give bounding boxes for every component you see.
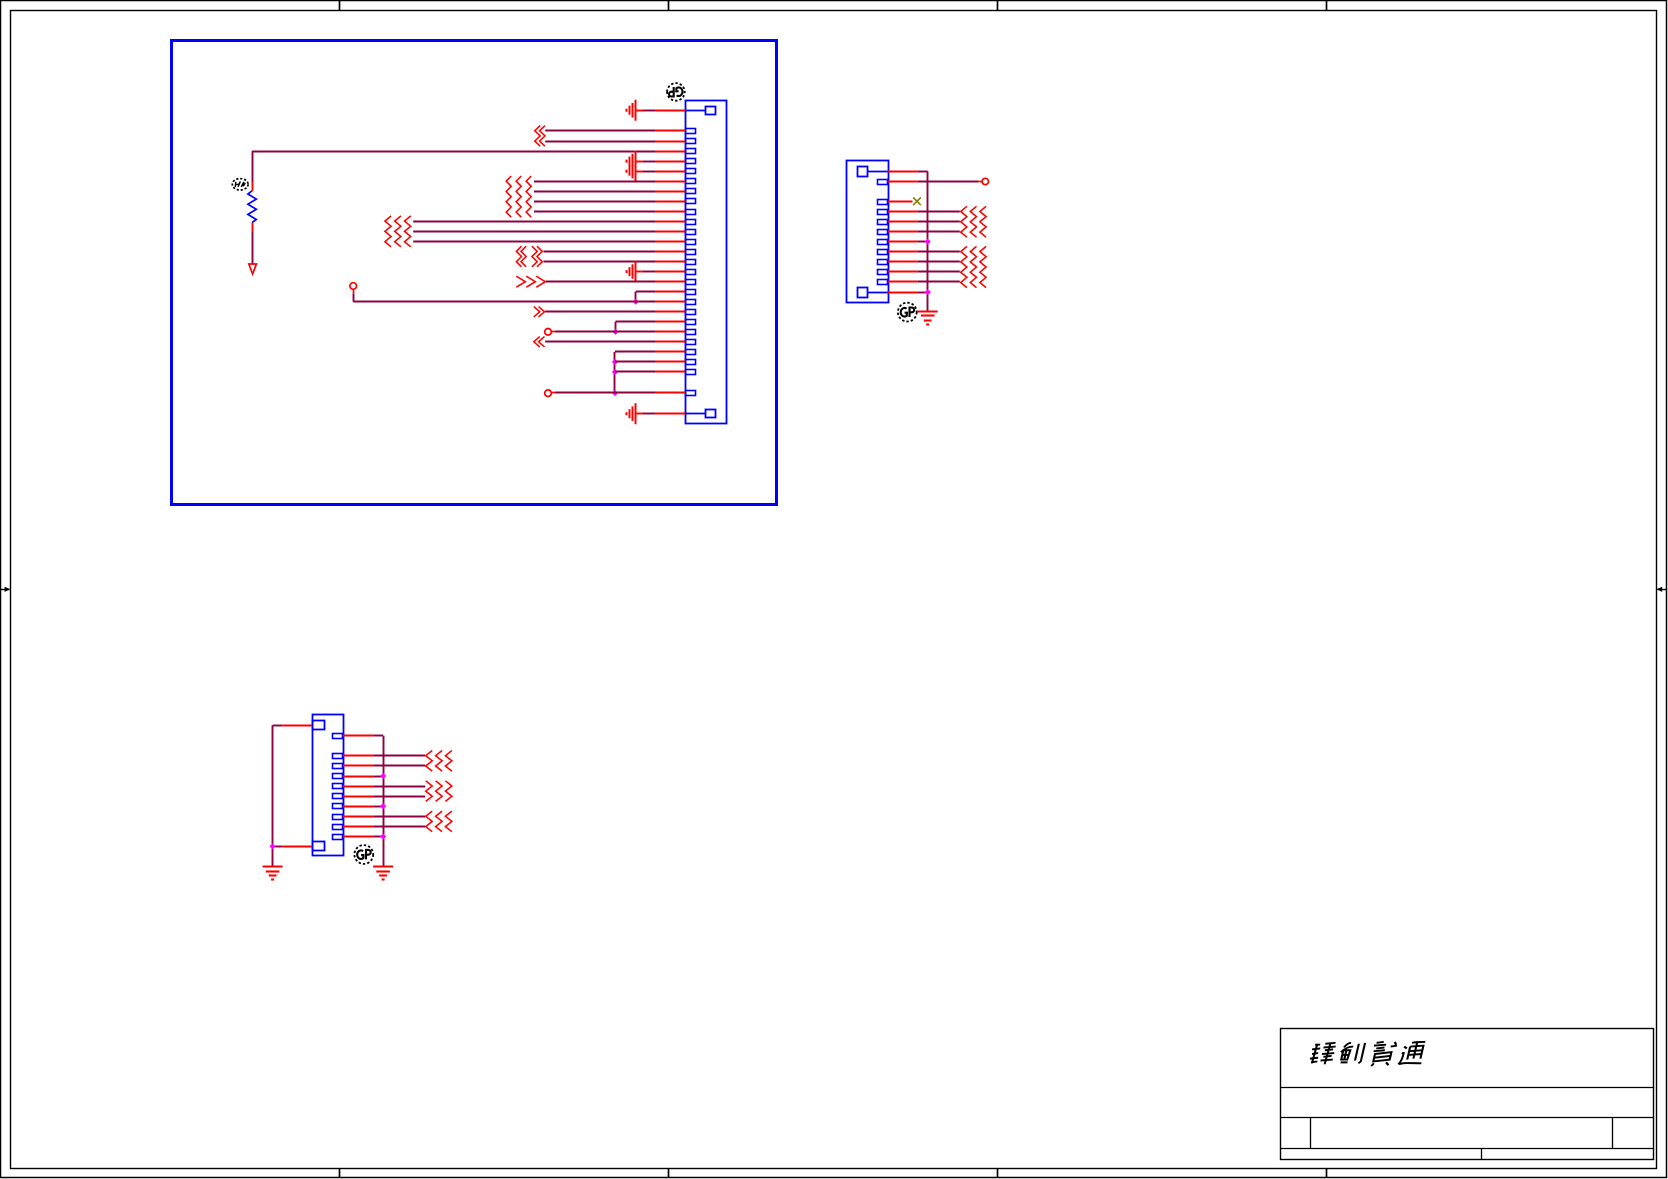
wire row 16: [546, 281, 655, 283]
wire J2 pin2 to TP: [918, 181, 982, 183]
net flag GP (J2): [898, 303, 917, 322]
wire row 17 branch: [636, 292, 656, 302]
node H junction: [270, 843, 276, 849]
ground GND5 (J2): [918, 312, 938, 325]
wires rows 10-12: [413, 222, 655, 242]
wires J3 rows 8-9: [373, 817, 425, 827]
chevrons (row 16): [516, 276, 545, 287]
resistor pair RP5 (row 19): [534, 307, 545, 317]
resistor pair RP6 (row 22): [534, 337, 545, 347]
wires J3 rows 2-3: [373, 756, 425, 766]
resistor pack RP3 (rows 10-12): [385, 216, 411, 247]
wires J3 rows 5-6: [373, 787, 425, 797]
test point TP1: [350, 283, 357, 290]
wire rows 1-2: [545, 131, 655, 142]
wire row 25: [615, 371, 655, 373]
wire row 20 branch: [616, 322, 656, 332]
wire TP2 row 21: [551, 331, 655, 333]
resistor pair RP4 (rows 13-14): [516, 246, 542, 267]
resistor pack RP9: [426, 751, 452, 772]
wire R1 to arrow: [252, 232, 254, 264]
company name text (Wistron CJK): [1309, 1042, 1427, 1066]
node I junction: [380, 773, 386, 779]
test point TP2: [545, 329, 552, 336]
node A junction: [633, 299, 639, 305]
node B junction: [612, 329, 618, 335]
connector J1 body: [685, 101, 726, 424]
title block: [1281, 1029, 1655, 1160]
test point TP3: [545, 390, 552, 397]
wire TP3 row 26: [551, 392, 655, 394]
wire J3 right gnd bus: [373, 736, 383, 867]
wire row 19: [545, 311, 655, 313]
connector J1 pin leads: [655, 111, 685, 414]
node K junction: [380, 833, 386, 839]
connector J2 pin leads: [888, 172, 918, 293]
right edge center arrow: [1656, 587, 1666, 592]
net flag GP (J1, rotated): [667, 83, 685, 101]
wire row 22: [545, 341, 655, 343]
resistor R1: [248, 182, 256, 232]
connector J3 pin leads: [282, 726, 373, 847]
no-connect X (J2 pin 3): [913, 198, 921, 206]
ground GND7 (J3 right): [373, 867, 393, 880]
wire J2 gnd bus: [918, 171, 928, 311]
ground GND1 (top pin): [627, 100, 656, 121]
resistor pair RP1 (rows 1-2): [535, 126, 545, 147]
resistor pack RP11: [426, 811, 452, 832]
wire net to R1: [252, 151, 655, 182]
wire TP1 to row 18: [353, 289, 655, 301]
wires rows 13-14: [544, 252, 656, 262]
resistor pack RP2 (rows 6-9): [506, 176, 531, 217]
net flag GP (J3): [354, 845, 373, 864]
node J junction: [380, 803, 386, 809]
resistor pack RP7: [961, 206, 986, 237]
R1 value flag: [232, 179, 248, 190]
ground GND6 (J3 left): [263, 867, 283, 880]
resistor pack RP8: [961, 246, 986, 287]
node E junction: [612, 390, 618, 396]
left edge center arrow: [1, 587, 11, 592]
wires J2 rows 4-6: [918, 212, 960, 232]
ground GND3 (row 15): [627, 261, 656, 282]
test point TP4: [982, 178, 988, 184]
top edge zone ticks: [340, 1, 1327, 10]
schematic area blue box: [172, 41, 777, 505]
node F junction: [925, 239, 931, 245]
node G junction: [925, 289, 931, 295]
connector J3 body: [313, 715, 344, 856]
node C junction: [612, 359, 618, 365]
bottom edge zone ticks: [340, 1169, 1327, 1178]
wire J3 left gnd: [273, 725, 283, 866]
node D junction: [612, 369, 618, 375]
wire row 24: [615, 361, 655, 363]
wire row 23 branch: [615, 352, 656, 394]
ground GND4 (bottom pin): [627, 403, 656, 424]
power arrow (down) on R1: [249, 264, 257, 274]
resistor pack RP10: [426, 781, 452, 802]
connector J2 body: [847, 161, 889, 303]
wires J2 rows 8-11: [918, 252, 960, 282]
ground GND2 (rows 4-5): [627, 151, 656, 182]
wires rows 6-9: [534, 182, 655, 212]
